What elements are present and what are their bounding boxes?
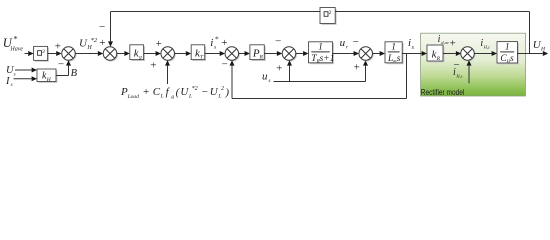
svg-text:−: − bbox=[202, 86, 208, 98]
wire TR to S6 bbox=[333, 51, 359, 56]
plus sign at S5 bottom bbox=[276, 63, 282, 75]
wire Us to kH bbox=[15, 68, 37, 73]
gain block PR bbox=[250, 45, 266, 61]
svg-text:i: i bbox=[408, 37, 411, 49]
minus sign at S6 bbox=[353, 36, 359, 48]
svg-text:+: + bbox=[276, 63, 282, 75]
summing junction S1 bbox=[62, 47, 77, 62]
svg-text:I: I bbox=[5, 76, 10, 87]
svg-text:s: s bbox=[397, 54, 401, 64]
gain block kg bbox=[130, 45, 145, 61]
wire kT to S4 bbox=[205, 51, 225, 56]
plus sign at S3 bottom bbox=[150, 60, 156, 72]
svg-text:+: + bbox=[150, 60, 156, 72]
svg-text:+: + bbox=[156, 38, 162, 50]
inductance block L bbox=[385, 42, 404, 64]
wire SQ1 to S1 bbox=[48, 51, 62, 56]
svg-text:+: + bbox=[354, 61, 360, 73]
minus sign at S1 bottom bbox=[58, 58, 64, 70]
svg-text:H: H bbox=[540, 47, 546, 53]
wire PR to S5 bbox=[264, 51, 282, 56]
wire load power into S3 bbox=[165, 60, 170, 84]
wire S2 to kg bbox=[117, 51, 130, 56]
svg-text:s: s bbox=[268, 78, 270, 84]
svg-text:*2: *2 bbox=[192, 86, 198, 92]
rectifier model panel bbox=[421, 33, 526, 96]
wire S5 to TR bbox=[296, 51, 309, 56]
svg-text:s: s bbox=[412, 45, 415, 51]
svg-text:−: − bbox=[58, 58, 64, 70]
wire us into S6 bbox=[363, 60, 368, 81]
svg-text:Load: Load bbox=[127, 94, 140, 100]
svg-text:B: B bbox=[71, 68, 78, 79]
label UH bbox=[533, 39, 546, 52]
capacitance block CH bbox=[497, 42, 519, 65]
svg-text:*: * bbox=[215, 34, 219, 43]
wire L to kR bbox=[402, 51, 427, 56]
node B label bbox=[71, 68, 78, 79]
wire feedback vertical from output bbox=[529, 12, 531, 54]
svg-text:R: R bbox=[436, 56, 441, 62]
plus sign at S6 bottom bbox=[354, 61, 360, 73]
svg-text:s: s bbox=[14, 72, 16, 77]
wire S4 to PR bbox=[239, 51, 250, 56]
wire S1 to S2 bbox=[75, 51, 103, 56]
gain block kR bbox=[427, 45, 444, 62]
svg-text:R: R bbox=[259, 55, 264, 61]
plus sign at S3 left bbox=[156, 38, 162, 50]
label is bbox=[408, 37, 415, 51]
svg-text:C: C bbox=[153, 86, 161, 98]
svg-text:g: g bbox=[171, 94, 174, 100]
svg-text:u: u bbox=[262, 71, 268, 83]
gain block kT bbox=[191, 45, 206, 61]
label iHc bbox=[480, 38, 490, 50]
svg-text:Rectifier model: Rectifier model bbox=[421, 88, 465, 97]
summing junction S7 bbox=[461, 47, 476, 62]
plus sign at S7 bbox=[450, 37, 456, 49]
minus sign at S4 bottom bbox=[222, 59, 228, 71]
plus sign at S4 bbox=[221, 37, 227, 49]
label Is bbox=[5, 76, 13, 88]
svg-text:L: L bbox=[160, 94, 164, 100]
label U*_Have bbox=[3, 33, 24, 52]
gain block kH bbox=[37, 69, 57, 83]
label us bbox=[262, 71, 271, 84]
label iHs bbox=[453, 67, 463, 79]
wire S3 to kT bbox=[174, 51, 191, 56]
wire output UH bbox=[517, 51, 548, 56]
svg-text:*2: *2 bbox=[91, 37, 98, 44]
svg-text:−: − bbox=[353, 36, 359, 48]
label ur bbox=[340, 37, 349, 50]
wire us horizontal bbox=[274, 81, 366, 83]
wire top feedback into S2 bbox=[108, 12, 113, 47]
svg-text:*: * bbox=[13, 33, 18, 43]
wire is feedback tap bbox=[406, 54, 408, 99]
svg-text:1: 1 bbox=[318, 42, 323, 52]
svg-text:−: − bbox=[222, 59, 228, 71]
wire Is to kH bbox=[14, 76, 38, 81]
svg-text:s+1: s+1 bbox=[320, 54, 335, 64]
svg-text:i: i bbox=[210, 37, 213, 49]
plus sign at S1 bbox=[55, 41, 61, 53]
svg-text:r: r bbox=[346, 44, 349, 50]
wire kg to S3 bbox=[144, 51, 161, 56]
summing junction S3 bbox=[161, 47, 176, 62]
minus sign at S7 bottom left bbox=[453, 59, 459, 71]
wire top feedback left segment bbox=[111, 11, 321, 13]
svg-text:+: + bbox=[143, 86, 149, 98]
label load power formula bbox=[120, 86, 229, 100]
svg-text:2: 2 bbox=[42, 49, 45, 55]
svg-text:−: − bbox=[275, 35, 281, 47]
minus sign at S5 bbox=[275, 35, 281, 47]
svg-text:i: i bbox=[438, 34, 441, 45]
svg-text:+: + bbox=[450, 37, 456, 49]
svg-text:Have: Have bbox=[9, 47, 23, 53]
label Rectifier model bbox=[421, 88, 465, 97]
svg-text:+: + bbox=[99, 37, 105, 49]
svg-text:L: L bbox=[188, 94, 192, 100]
summing junction S4 bbox=[225, 47, 240, 62]
svg-text:s: s bbox=[510, 54, 514, 64]
svg-text:2: 2 bbox=[221, 86, 224, 92]
svg-text:f: f bbox=[166, 86, 171, 98]
wire iHs into S7 bbox=[467, 60, 472, 83]
wire is feedback into S4 bbox=[230, 60, 235, 98]
squarer block SQ2 bbox=[320, 8, 337, 25]
svg-text:s: s bbox=[214, 45, 216, 51]
wire S6 to L bbox=[372, 51, 385, 56]
svg-text:): ) bbox=[224, 87, 229, 99]
summing junction S6 bbox=[359, 47, 374, 62]
label Us bbox=[6, 65, 16, 77]
plus sign at S2 bbox=[99, 37, 105, 49]
wire us into S5 bbox=[287, 60, 292, 81]
wire is feedback bottom segment bbox=[232, 98, 407, 100]
svg-text:g: g bbox=[139, 55, 142, 61]
transfer block TR bbox=[309, 42, 335, 65]
svg-text:s: s bbox=[11, 83, 13, 88]
svg-text:H: H bbox=[86, 45, 92, 51]
svg-text:2: 2 bbox=[329, 10, 332, 16]
wire input to SQ1 bbox=[25, 51, 34, 56]
wire top feedback right segment bbox=[335, 11, 529, 13]
squarer block SQ1 bbox=[34, 46, 49, 61]
svg-text:+: + bbox=[221, 37, 227, 49]
label is ref bbox=[210, 34, 218, 50]
wire kH to S1 node B bbox=[56, 60, 71, 75]
label UH*2 bbox=[79, 37, 98, 51]
svg-text:u: u bbox=[340, 37, 346, 49]
wire S7 to CH bbox=[474, 51, 497, 56]
minus sign at S2 top bbox=[99, 21, 105, 33]
svg-text:1: 1 bbox=[391, 42, 396, 52]
svg-text:1: 1 bbox=[505, 42, 510, 52]
wire kR to S7 bbox=[443, 51, 461, 56]
svg-text:−: − bbox=[99, 21, 105, 33]
label id av bbox=[438, 34, 449, 46]
svg-text:L: L bbox=[217, 94, 221, 100]
summing junction S5 bbox=[282, 47, 297, 62]
summing junction S2 bbox=[103, 47, 118, 62]
svg-text:+: + bbox=[55, 41, 61, 53]
